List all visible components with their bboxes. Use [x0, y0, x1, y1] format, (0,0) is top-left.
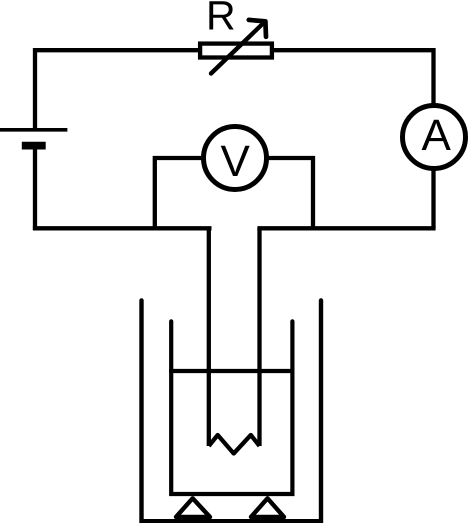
wire ammeter bottom [431, 169, 435, 229]
heater element zigzag [209, 435, 260, 454]
wire voltmeter right tap [267, 158, 314, 228]
label A [422, 120, 451, 150]
wire top right (rheostat to ammeter) [272, 50, 434, 105]
label R [209, 1, 233, 29]
ammeter U2 circle [403, 106, 466, 169]
outer container (calorimeter jacket) [142, 300, 322, 521]
voltmeter U1 circle [204, 127, 267, 190]
inner vessel (beaker) [171, 321, 292, 494]
heater lead right [257, 228, 261, 446]
rheostat arrow shaft [211, 22, 264, 73]
wire bottom bus right segment [257, 226, 435, 230]
wire top left (battery to rheostat) [35, 50, 200, 130]
rheostat arrowhead [249, 20, 266, 37]
battery short thick plate (-) [22, 142, 46, 150]
support triangle left [176, 498, 210, 517]
wire bottom bus left segment [33, 226, 212, 230]
label V [221, 146, 250, 176]
battery long plate (+) [0, 128, 67, 132]
water level line [169, 369, 294, 373]
support triangle right [251, 498, 284, 517]
heater lead left [207, 228, 211, 446]
wire voltmeter left tap [155, 158, 204, 228]
wire left vertical (battery to bottom bus) [33, 150, 37, 231]
resistor R (rheostat body) [200, 44, 272, 58]
